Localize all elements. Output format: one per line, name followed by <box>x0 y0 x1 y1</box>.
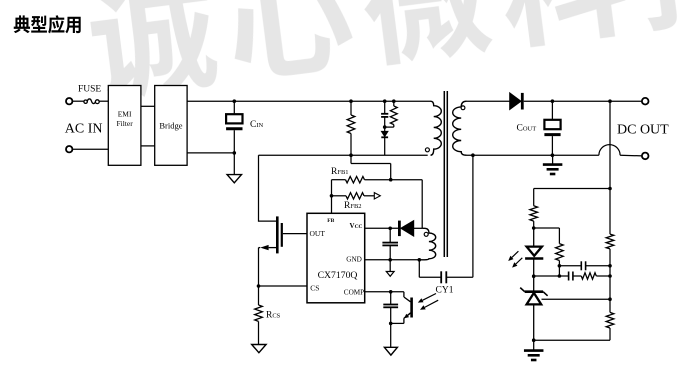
node: CIN top junction <box>233 99 237 103</box>
wire: Bridge bottom output to CIN <box>187 152 235 154</box>
node: COMP cap bottom <box>389 322 393 326</box>
wire: switch-node horizontal (drain rail) <box>259 154 428 156</box>
node: snubber R bottom junction <box>349 153 353 157</box>
wire: feedback top link <box>534 188 610 190</box>
transformer secondary winding <box>453 101 467 155</box>
node: TL431 ref link right <box>608 297 612 301</box>
svg-text:DC OUT: DC OUT <box>617 122 669 137</box>
capacitor CY1 <box>440 271 442 283</box>
svg-text:FB: FB <box>327 218 334 224</box>
wire: IC COMP pin right <box>365 291 404 293</box>
wire: emitter to COMP cap bottom <box>391 322 404 324</box>
ground below RCS <box>252 345 266 353</box>
aux polarity dot <box>424 232 428 236</box>
node: COMP cap top <box>389 290 393 294</box>
wire: right chain middle <box>609 249 611 313</box>
node: row1 right junction <box>608 264 612 268</box>
svg-text:FUSE: FUSE <box>78 84 101 94</box>
wire: FB vertical <box>331 180 333 214</box>
ground below CIN <box>227 153 241 183</box>
node: VCC cap top <box>388 227 392 231</box>
watermark 诚心微科技 <box>85 0 683 103</box>
wire: AC bottom from terminal to EMI filter <box>73 148 109 150</box>
svg-text:CS: CS <box>310 284 319 293</box>
node: CIN bottom junction <box>233 151 237 155</box>
resistor right chain upper <box>606 234 614 249</box>
node: COUT top <box>551 99 555 103</box>
wire: bottom return <box>534 339 610 341</box>
transformer core <box>443 91 445 257</box>
node: GND cap junction <box>388 258 392 262</box>
terminal: AC IN top <box>66 98 72 104</box>
svg-text:Filter: Filter <box>116 119 133 128</box>
svg-text:COMP: COMP <box>344 289 364 297</box>
node: snubber R2 top <box>392 99 396 103</box>
wire: TL431 ref link <box>542 298 611 300</box>
resistor RFB2 with arrow <box>332 193 381 199</box>
transistor Q1 MOSFET <box>259 216 282 253</box>
diode snubber D <box>381 127 388 155</box>
node: bottom return junction <box>532 338 536 342</box>
resistor middle (LED parallel) <box>556 244 564 266</box>
wire: CY1 left leg <box>418 260 420 278</box>
capacitor+resistor comp row2 <box>534 272 610 281</box>
node: row2 middle junction <box>558 274 562 278</box>
node: CY1 drop junction <box>418 258 422 262</box>
fuse FUSE symbol <box>84 99 108 104</box>
node: secondary return junction (CY1 drop) <box>471 153 475 157</box>
diode opto LED <box>525 228 543 276</box>
node: right chain top-link junction <box>608 187 612 191</box>
svg-text:OUT: OUT <box>310 229 326 238</box>
block Bridge <box>155 86 187 166</box>
node: right chain top rail junction <box>608 99 612 103</box>
ground small below GND node <box>386 260 394 277</box>
node: COUT bottom <box>551 153 555 157</box>
capacitor snubber C <box>381 101 388 127</box>
resistor right chain lower <box>606 312 614 340</box>
wire: IC VCC pin to diode <box>365 227 398 229</box>
opto light arrows into phototransistor <box>418 294 438 310</box>
wire: CY1 right leg to secondary return <box>446 276 473 278</box>
node: CS junction <box>257 284 261 288</box>
svg-text:AC IN: AC IN <box>65 121 103 136</box>
node: RFB2 left junction <box>330 194 334 198</box>
capacitor CIN (electrolytic) <box>226 101 242 153</box>
svg-text:GND: GND <box>346 256 362 264</box>
wire: branch to middle resistor <box>534 227 560 229</box>
wire: MOSFET gate to IC OUT <box>283 233 307 235</box>
svg-text:EMI: EMI <box>118 110 132 119</box>
node: LED anode branch junction <box>532 226 536 230</box>
svg-text:CY1: CY1 <box>436 285 454 295</box>
node: row2 right junction <box>608 274 612 278</box>
wire: right chain vertical top <box>609 101 611 234</box>
svg-text:COUT: COUT <box>517 124 537 134</box>
terminal DC OUT + <box>642 98 649 105</box>
wire: MOSFET source down to CS node <box>258 248 260 286</box>
svg-text:RFB1: RFB1 <box>331 167 349 177</box>
wire: top rail from Bridge to primary winding <box>187 100 430 102</box>
svg-text:VCC: VCC <box>350 222 363 230</box>
wire: AC top from terminal to fuse <box>73 100 84 102</box>
ground (earth) below COUT <box>543 155 563 174</box>
resistor bias R (left chain upper) <box>530 206 538 228</box>
wire: step wire to RFB1 node <box>350 155 352 163</box>
ground below COMP cap <box>384 323 397 355</box>
wire: secondary bottom rail with hop <box>467 154 599 156</box>
diode output rectifier <box>510 93 523 110</box>
wire: diode to DC OUT+ terminal <box>524 100 642 102</box>
title 典型应用 <box>14 15 81 33</box>
capacitor COMP cap <box>383 292 398 324</box>
primary polarity dot <box>425 148 429 152</box>
svg-text:RCS: RCS <box>266 311 281 321</box>
node: comp row1 left junction <box>558 264 562 268</box>
capacitor VCC cap <box>382 228 398 259</box>
secondary polarity dot <box>461 106 465 110</box>
transformer primary winding <box>431 101 442 155</box>
wire: CS node to IC CS pin <box>259 285 308 287</box>
wire: drain vertical down-left <box>258 155 260 222</box>
wire: secondary top to output diode <box>467 100 510 102</box>
block EMI Filter <box>108 86 141 166</box>
terminal DC OUT - <box>642 153 649 160</box>
node: LED cathode junction <box>532 274 536 278</box>
diode VCC rectifier <box>399 221 413 237</box>
terminal: AC IN bottom <box>66 146 72 152</box>
wire: diode to aux node <box>414 227 423 229</box>
transformer aux winding <box>419 228 435 259</box>
zener TL431 <box>520 276 547 340</box>
resistor RFB1 <box>332 177 391 183</box>
transistor opto phototransistor <box>404 292 412 324</box>
resistor snubber R (left) <box>347 101 355 155</box>
ground (earth) below TL431 <box>524 340 544 360</box>
capacitor COUT (electrolytic) <box>544 101 560 155</box>
svg-text:CX7170Q: CX7170Q <box>318 270 358 281</box>
wire: middle vertical to row2 <box>558 266 560 276</box>
wire: IC GND pin to aux winding return <box>365 259 420 261</box>
svg-text:Bridge: Bridge <box>159 121 182 131</box>
node: snubber RC bottom junction <box>383 125 387 129</box>
node: snubber C top <box>383 99 387 103</box>
svg-text:CIN: CIN <box>250 120 264 130</box>
wire: EMI to Bridge bottom <box>141 145 155 147</box>
wire: RFB1 node to VCC diode node <box>391 179 423 181</box>
node: snubber R top <box>349 99 353 103</box>
svg-text:RFB2: RFB2 <box>344 201 362 211</box>
capacitor comp row1 <box>559 261 610 270</box>
node: RFB1 right junction <box>389 178 393 182</box>
wire: EMI to Bridge top <box>141 105 155 107</box>
IC U1 CX7170Q box <box>307 213 365 302</box>
resistor snubber R2 (right) <box>385 101 398 127</box>
resistor RCS <box>255 286 263 345</box>
LED light arrows <box>508 251 522 267</box>
